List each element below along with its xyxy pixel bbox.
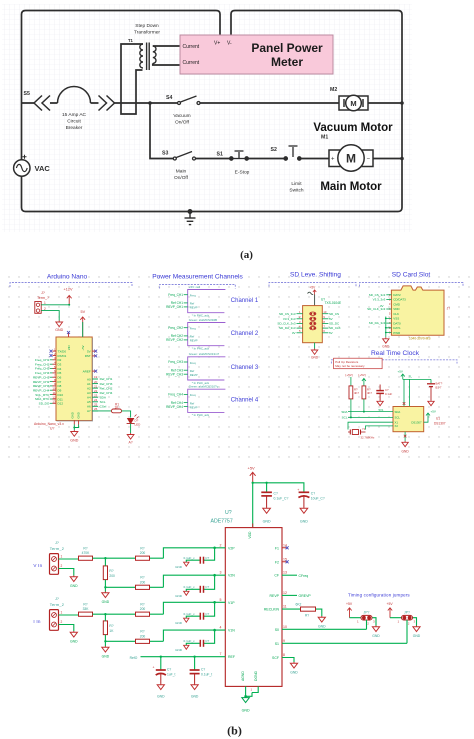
svg-text:SD_DC: SD_DC bbox=[329, 322, 340, 326]
svg-text:REVP: REVP bbox=[190, 306, 198, 310]
svg-text:DAT1: DAT1 bbox=[393, 326, 401, 330]
svg-text:GND: GND bbox=[102, 600, 110, 604]
svg-text:[+5V]: [+5V] bbox=[359, 373, 366, 377]
svg-text:REVP_CH1: REVP_CH1 bbox=[166, 305, 183, 309]
label 15 Amp AC Circuit Breaker bbox=[62, 112, 87, 131]
svg-text:+12V: +12V bbox=[64, 288, 73, 292]
svg-text:+5V: +5V bbox=[431, 410, 436, 414]
svg-text:1: 1 bbox=[357, 620, 359, 624]
svg-text:+5V: +5V bbox=[346, 602, 353, 606]
motor M2 vacuum motor bbox=[339, 95, 368, 111]
pin 3 sd card slot bbox=[389, 302, 401, 306]
svg-text:GND: GND bbox=[300, 520, 308, 524]
svg-text:A6: A6 bbox=[87, 405, 91, 409]
ground symbol (AGND) bbox=[242, 696, 250, 702]
svg-text:REF: REF bbox=[228, 655, 235, 659]
svg-text:33K: 33K bbox=[83, 607, 90, 611]
circuit breaker S5 (chevrons + arc) bbox=[34, 87, 115, 111]
svg-text:2: 2 bbox=[408, 622, 410, 626]
svg-text:+: + bbox=[153, 666, 155, 670]
resistor R? 4K7 (SCL pullup) bbox=[349, 386, 353, 399]
svg-text:7: 7 bbox=[220, 652, 222, 656]
svg-text:+5V: +5V bbox=[81, 345, 85, 350]
svg-text:A0: A0 bbox=[87, 377, 91, 381]
ground symbol (sd slot) bbox=[383, 337, 389, 343]
svg-text:6K2: 6K2 bbox=[296, 602, 302, 606]
svg-text:Ref_CH2: Ref_CH2 bbox=[100, 386, 113, 390]
svg-text:1K: 1K bbox=[109, 629, 114, 633]
svg-text:GND: GND bbox=[157, 695, 165, 699]
svg-text:GND: GND bbox=[175, 621, 183, 625]
wire: rtc vcc rail bbox=[403, 379, 431, 406]
svg-text:AGND: AGND bbox=[241, 671, 245, 681]
wire: J? pin1 to +12V bbox=[41, 304, 69, 306]
wire SCF to gnd bbox=[282, 658, 294, 663]
pin A3 bbox=[87, 389, 113, 395]
wire: divider tap bbox=[104, 558, 106, 591]
ground symbol (filter) bbox=[184, 645, 189, 649]
pin 3 D2 bbox=[35, 356, 62, 362]
svg-text:R?: R? bbox=[83, 603, 87, 607]
svg-text:SD_CLK_3v3: SD_CLK_3v3 bbox=[277, 322, 296, 326]
capacitor C? 0.1uF (rtc) bbox=[376, 385, 384, 401]
ground symbol (ref cap1) bbox=[157, 684, 164, 690]
power flag +5V (pullups left) bbox=[346, 373, 366, 377]
pin 9 sd card slot bbox=[389, 331, 401, 335]
svg-text:GND: GND bbox=[290, 671, 298, 675]
IC U? Arduino_Nano_v3.x bbox=[56, 337, 92, 421]
svg-text:A3: A3 bbox=[87, 391, 91, 395]
svg-text:* In PHC_ack: * In PHC_ack bbox=[192, 347, 210, 351]
svg-text:D6: D6 bbox=[58, 376, 62, 380]
capacitor C? 0.1uF_c (antialias filter) bbox=[186, 575, 214, 591]
svg-text:SD_CS_3v3: SD_CS_3v3 bbox=[369, 293, 386, 297]
svg-text:24: 24 bbox=[94, 398, 98, 402]
svg-text:JP?: JP? bbox=[404, 611, 410, 615]
pin 12 D11 bbox=[35, 395, 63, 401]
svg-text:SDA: SDA bbox=[395, 410, 401, 414]
svg-text:Arduino_Nano_v3.x: Arduino_Nano_v3.x bbox=[34, 422, 64, 426]
pin A7 bbox=[87, 407, 98, 413]
wire: J1 pin1 to R 470K bbox=[59, 558, 79, 560]
svg-text:J?: J? bbox=[55, 597, 59, 601]
svg-text:Circuit: Circuit bbox=[67, 119, 81, 125]
resistor R? 200 bbox=[136, 639, 150, 643]
ground symbol (ref cap2) bbox=[191, 684, 198, 690]
svg-text:D12: D12 bbox=[58, 402, 64, 406]
svg-text:+5V: +5V bbox=[248, 466, 256, 471]
svg-text:2: 2 bbox=[61, 564, 63, 568]
svg-text:0.1uF_t: 0.1uF_t bbox=[201, 673, 212, 677]
svg-text:Timing configuration jumpers: Timing configuration jumpers bbox=[348, 593, 410, 598]
label Vacuum On/Off bbox=[173, 113, 190, 126]
svg-text:Freq_CH4: Freq_CH4 bbox=[168, 393, 183, 397]
svg-text:Vacuum Motor: Vacuum Motor bbox=[313, 122, 393, 134]
pin A6 bbox=[87, 403, 107, 409]
svg-text:Panel Power: Panel Power bbox=[251, 41, 323, 55]
pin A1 bbox=[87, 380, 113, 386]
svg-text:Current: Current bbox=[183, 44, 200, 50]
svg-text:Freq_CH1: Freq_CH1 bbox=[35, 358, 50, 362]
svg-text:−: − bbox=[367, 157, 371, 163]
svg-text:Ref_CH4: Ref_CH4 bbox=[100, 391, 113, 395]
svg-text:REVP_CH2: REVP_CH2 bbox=[166, 338, 183, 342]
svg-text:REVP_CH3: REVP_CH3 bbox=[166, 372, 183, 376]
svg-text:V1P: V1P bbox=[228, 601, 235, 605]
ground symbol (reclkin) bbox=[318, 616, 325, 622]
svg-text:GND: GND bbox=[242, 709, 250, 713]
svg-text:12: 12 bbox=[283, 591, 287, 595]
svg-text:SCF: SCF bbox=[272, 656, 279, 660]
wire: channel 1 purple bracket bbox=[188, 290, 226, 313]
wire: rtc vcc pin right to +5V bbox=[424, 413, 430, 422]
svg-text:GND: GND bbox=[70, 640, 78, 644]
svg-text:V In: V In bbox=[33, 563, 42, 568]
svg-text:U?: U? bbox=[225, 510, 232, 516]
wire: channel 4 purple bracket bbox=[188, 389, 226, 412]
pin pair 3 level shifter bbox=[277, 320, 340, 326]
wire: AGND/DGND to ground bbox=[246, 686, 259, 696]
wire: sd slot ground bus bbox=[386, 317, 392, 338]
wire: to IC pin bbox=[163, 602, 225, 614]
ground symbol (battery) bbox=[428, 400, 434, 406]
wire: J? pin2 to GND bbox=[41, 311, 59, 321]
svg-text:C?: C? bbox=[205, 556, 209, 560]
wire: A7 to resistor R1 bbox=[92, 410, 111, 412]
svg-text:M1: M1 bbox=[321, 135, 328, 141]
svg-text:RECLKIN: RECLKIN bbox=[264, 608, 280, 612]
svg-text:5V: 5V bbox=[329, 331, 333, 335]
svg-text:22: 22 bbox=[94, 389, 98, 393]
svg-text:E-Stop: E-Stop bbox=[235, 170, 250, 176]
svg-text:R?: R? bbox=[140, 576, 144, 580]
svg-text:REVP_CH1: REVP_CH1 bbox=[33, 375, 50, 379]
svg-text:1: 1 bbox=[398, 620, 400, 624]
svg-text:R?: R? bbox=[109, 624, 113, 628]
label Step Down Transformer bbox=[134, 23, 160, 36]
svg-text:CSel: CSel bbox=[100, 405, 107, 409]
svg-text:S4: S4 bbox=[166, 95, 172, 101]
svg-text:SD_CS: SD_CS bbox=[329, 312, 339, 316]
svg-text:GND: GND bbox=[77, 412, 81, 418]
svg-text:RefO: RefO bbox=[130, 656, 138, 660]
wire CF to label bbox=[282, 574, 297, 576]
svg-text:A5: A5 bbox=[87, 400, 91, 404]
svg-text:Step Down: Step Down bbox=[135, 23, 159, 29]
svg-text:DS1307: DS1307 bbox=[411, 420, 422, 424]
ground symbol (cap2) bbox=[300, 507, 308, 513]
svg-text:GND: GND bbox=[55, 328, 63, 332]
svg-text:8: 8 bbox=[283, 653, 285, 657]
pin 6 D5 bbox=[35, 369, 62, 375]
wire: REF pin bbox=[141, 656, 226, 658]
ground symbol (rtc cap) bbox=[377, 400, 383, 406]
wire: rtc gnd bbox=[404, 432, 406, 441]
ground symbol of panel (a) bbox=[185, 210, 196, 225]
ground symbol (jumper) bbox=[413, 626, 420, 632]
svg-text:2: 2 bbox=[220, 543, 222, 547]
capacitor C? 0.1uF_C? (decoupling) bbox=[261, 492, 272, 507]
svg-text:V-: V- bbox=[227, 41, 232, 47]
svg-text:REVP: REVP bbox=[190, 405, 198, 409]
svg-text:VDD: VDD bbox=[393, 307, 400, 311]
battery BAT? bbox=[427, 384, 435, 400]
pin A5 bbox=[87, 398, 106, 404]
svg-text:SD_CS_3v3: SD_CS_3v3 bbox=[279, 312, 296, 316]
pin RST (no connect) bbox=[85, 354, 98, 358]
wire: +5V hook into level shifter bbox=[308, 292, 315, 305]
connector J? Term_2 bbox=[50, 597, 65, 630]
svg-text:CMD: CMD bbox=[393, 302, 401, 306]
wire: jumper common down bbox=[406, 620, 408, 643]
svg-text:* In PHC_ack: * In PHC_ack bbox=[192, 314, 210, 318]
svg-text:DAT2: DAT2 bbox=[393, 293, 401, 297]
svg-text:REVP_CH4: REVP_CH4 bbox=[166, 405, 183, 409]
ground symbol (LED) bbox=[127, 433, 134, 439]
svg-text:SCL: SCL bbox=[100, 400, 106, 404]
capacitor C? 1uF_t (ref) bbox=[160, 657, 162, 670]
resistor R1 bbox=[112, 409, 122, 413]
svg-text:SCL: SCL bbox=[395, 416, 401, 420]
svg-text:GND: GND bbox=[413, 634, 421, 638]
svg-text:DGND: DGND bbox=[254, 670, 258, 681]
pin 5 sd card slot bbox=[389, 312, 399, 316]
pin VIN (X no-connect) bbox=[68, 333, 70, 337]
svg-text:J?: J? bbox=[41, 291, 45, 295]
svg-text:+5V: +5V bbox=[398, 370, 403, 374]
svg-text:VAC: VAC bbox=[35, 164, 51, 173]
wire: LED to ground bbox=[130, 424, 132, 434]
svg-text:A4: A4 bbox=[87, 396, 91, 400]
svg-text:4K7: 4K7 bbox=[354, 391, 359, 395]
svg-text:AREF: AREF bbox=[83, 369, 91, 373]
pin 5V (no connect) bbox=[87, 349, 97, 353]
pin 8 D7 bbox=[33, 378, 62, 384]
svg-text:CF: CF bbox=[274, 574, 279, 578]
svg-text:3V: 3V bbox=[380, 304, 384, 308]
IC U1 DS1307 bbox=[393, 407, 424, 432]
svg-text:X2: X2 bbox=[395, 424, 399, 428]
svg-text:LED: LED bbox=[135, 423, 142, 427]
svg-text:Limit: Limit bbox=[291, 181, 302, 187]
wire: jumper common down bbox=[366, 620, 368, 629]
svg-text:GND: GND bbox=[175, 565, 183, 569]
svg-text:C?: C? bbox=[205, 612, 209, 616]
grid background of panel (a) bbox=[2, 4, 412, 232]
capacitor C? 0.1uF_c (antialias filter) bbox=[186, 602, 214, 618]
svg-text:0.1uF: 0.1uF bbox=[385, 392, 392, 396]
svg-text:Green: slotMCS313m?: Green: slotMCS313m? bbox=[189, 352, 220, 356]
wire: channel 3 purple bracket bbox=[188, 357, 226, 380]
svg-text:Ref_CH1: Ref_CH1 bbox=[100, 377, 113, 381]
svg-text:+5V: red: +5V: red bbox=[189, 285, 201, 289]
svg-text:9: 9 bbox=[283, 639, 285, 643]
svg-text:M2: M2 bbox=[330, 87, 337, 93]
ground symbol (shunt) bbox=[102, 646, 109, 652]
resistor R? 1K (shunt) bbox=[103, 621, 107, 635]
svg-text:+: + bbox=[331, 157, 335, 163]
ground symbol (jumper) bbox=[372, 626, 379, 632]
pin pair 5 level shifter bbox=[292, 329, 333, 335]
svg-text:B1-7: B1-7 bbox=[436, 386, 442, 390]
resistor R? 6K2 (RECLKIN) bbox=[282, 609, 322, 616]
svg-text:GND: GND bbox=[70, 584, 78, 588]
svg-text:* In PHC_ack: * In PHC_ack bbox=[192, 413, 210, 417]
svg-text:4: 4 bbox=[220, 626, 222, 630]
svg-text:R?: R? bbox=[140, 603, 144, 607]
pin AREF (no connect) bbox=[83, 369, 98, 373]
node: vacuum motor to right border bbox=[400, 101, 404, 105]
svg-text:R?: R? bbox=[140, 547, 144, 551]
svg-text:V2P: V2P bbox=[228, 546, 235, 550]
svg-text:S2: S2 bbox=[271, 147, 277, 153]
svg-text:OREVP: OREVP bbox=[299, 594, 312, 598]
ground symbol (cap1) bbox=[263, 507, 271, 513]
svg-text:RST: RST bbox=[85, 354, 91, 358]
svg-text:SD Leve. Shifting: SD Leve. Shifting bbox=[290, 272, 341, 279]
bracket SD card slot bbox=[360, 283, 464, 287]
switch S3 main on/off bbox=[173, 152, 195, 161]
svg-text:May not be necessary: May not be necessary bbox=[335, 364, 365, 368]
wire: bottom pins to GND bbox=[74, 425, 78, 431]
svg-text:DAT0: DAT0 bbox=[393, 321, 401, 325]
svg-text:25: 25 bbox=[94, 403, 98, 407]
svg-text:+: + bbox=[297, 488, 299, 492]
connector J? Term_2 bbox=[50, 541, 65, 574]
svg-text:T1: T1 bbox=[128, 38, 134, 43]
svg-text:2: 2 bbox=[61, 620, 63, 624]
svg-text:Breaker: Breaker bbox=[66, 125, 83, 131]
resistor R? 33K bbox=[79, 612, 93, 616]
pin 1 TX/D0 bbox=[50, 347, 67, 353]
pin 10 D9 bbox=[33, 387, 62, 393]
svg-text:M: M bbox=[350, 99, 356, 108]
svg-text:Transformer: Transformer bbox=[134, 30, 160, 36]
svg-text:Y1: Y1 bbox=[362, 427, 366, 431]
switch S1 E-Stop bbox=[230, 151, 249, 160]
svg-text:SD Card Slot: SD Card Slot bbox=[392, 272, 431, 279]
svg-text:REVP: REVP bbox=[269, 594, 279, 598]
svg-text:S0: S0 bbox=[275, 628, 279, 632]
wire: main hot line y=103 segments bbox=[22, 102, 403, 104]
capacitor C? 0.1uF_t (ref) bbox=[194, 657, 196, 670]
svg-text:3V: 3V bbox=[292, 331, 296, 335]
svg-text:Switch: Switch bbox=[289, 188, 303, 194]
svg-text:Channel 3: Channel 3 bbox=[231, 365, 259, 371]
svg-text:+5V: +5V bbox=[310, 286, 317, 290]
resistor R? 200 bbox=[136, 612, 150, 616]
svg-text:VSS: VSS bbox=[393, 317, 399, 321]
svg-text:F2: F2 bbox=[275, 560, 279, 564]
svg-text:0.1uF_c: 0.1uF_c bbox=[184, 639, 196, 643]
pin 7 D6 bbox=[33, 374, 62, 380]
svg-text:Freq: Freq bbox=[190, 327, 196, 331]
svg-text:R?: R? bbox=[109, 569, 113, 573]
svg-text:Freq_CH3: Freq_CH3 bbox=[35, 367, 50, 371]
svg-text:Term_2: Term_2 bbox=[50, 546, 64, 551]
bracket real time clock bbox=[331, 360, 457, 364]
wire: channel 2 purple bracket bbox=[188, 323, 226, 346]
svg-text:JP?: JP? bbox=[364, 611, 370, 615]
svg-text:SCL_RTC: SCL_RTC bbox=[35, 393, 50, 397]
svg-text:CD/DAT3: CD/DAT3 bbox=[393, 298, 406, 302]
transformer T1 (step-down) bbox=[140, 43, 156, 71]
wire: 5V into top pin bbox=[82, 322, 84, 337]
svg-text:V3.3_3v3: V3.3_3v3 bbox=[283, 317, 296, 321]
svg-text:Freq_CH2: Freq_CH2 bbox=[168, 326, 183, 330]
svg-text:SD_DA_3v3: SD_DA_3v3 bbox=[369, 321, 386, 325]
svg-text:C?: C? bbox=[167, 668, 171, 672]
ground symbol (filter) bbox=[184, 562, 189, 566]
wire: to IC pin bbox=[163, 630, 225, 641]
svg-text:Power Measurement Channels: Power Measurement Channels bbox=[152, 274, 243, 281]
power flag +12V bbox=[64, 288, 73, 305]
svg-text:DS1307: DS1307 bbox=[434, 422, 446, 426]
pin 4 sd card slot bbox=[367, 307, 400, 311]
svg-text:A2: A2 bbox=[87, 386, 91, 390]
svg-text:On/Off: On/Off bbox=[175, 120, 190, 126]
svg-text:C?: C? bbox=[205, 639, 209, 643]
power flag 5V bbox=[80, 310, 85, 337]
wire: secondary to meter current inputs bbox=[153, 46, 180, 65]
connector J? Term_? (power input) bbox=[35, 291, 49, 313]
pin 11 D10 bbox=[35, 391, 63, 397]
svg-text:PWR: PWR bbox=[393, 331, 401, 335]
svg-text:[+5V]: [+5V] bbox=[346, 373, 353, 377]
pin 8 sd card slot bbox=[389, 326, 401, 330]
svg-text:J?: J? bbox=[55, 541, 59, 545]
svg-text:GND: GND bbox=[71, 412, 75, 418]
svg-text:V3.3_3v3: V3.3_3v3 bbox=[373, 298, 386, 302]
svg-text:Main: Main bbox=[176, 169, 187, 175]
svg-text:C?: C? bbox=[311, 492, 315, 496]
svg-text:0.1uF_c: 0.1uF_c bbox=[184, 585, 196, 589]
wire: R1 to LED bbox=[122, 411, 131, 418]
svg-text:SDA: SDA bbox=[341, 410, 347, 414]
svg-text:3: 3 bbox=[373, 620, 375, 624]
wire: 33K to R200 to pin V1P bbox=[93, 613, 164, 615]
svg-text:GND: GND bbox=[263, 520, 271, 524]
wire REVP to label bbox=[282, 594, 297, 596]
wire: to IC pin bbox=[163, 575, 225, 587]
svg-text:R?: R? bbox=[140, 630, 144, 634]
svg-text:D8: D8 bbox=[58, 384, 62, 388]
svg-text:SD_DO: SD_DO bbox=[39, 402, 50, 406]
svg-text:Green: slotMCS394B: Green: slotMCS394B bbox=[189, 318, 217, 322]
svg-text:GND: GND bbox=[311, 356, 319, 360]
svg-text:Freq: Freq bbox=[190, 361, 196, 365]
svg-text:Freq_CH3: Freq_CH3 bbox=[168, 360, 183, 364]
svg-text:11: 11 bbox=[53, 391, 56, 395]
wire: S3 branch down and lower row bbox=[150, 103, 402, 159]
pin A0 bbox=[87, 375, 113, 381]
svg-text:REVP: REVP bbox=[190, 373, 198, 377]
pin 2 RX/D1 bbox=[50, 352, 67, 358]
node: junction hot line to S3 branch bbox=[148, 101, 152, 105]
svg-text:Freq: Freq bbox=[190, 393, 196, 397]
svg-text:U1: U1 bbox=[436, 417, 440, 421]
dotted grid of middle schematic bbox=[4, 268, 470, 464]
wire: +5V rail to decoupling caps bbox=[253, 483, 304, 528]
svg-text:V2N: V2N bbox=[228, 574, 235, 578]
svg-text:4K7: 4K7 bbox=[367, 391, 372, 395]
svg-text:D2: D2 bbox=[58, 358, 62, 362]
svg-text:5V: 5V bbox=[87, 349, 91, 353]
wire: level shifter gnd bbox=[314, 343, 316, 349]
svg-text:10: 10 bbox=[283, 625, 287, 629]
svg-text:ADE7757: ADE7757 bbox=[211, 519, 233, 525]
svg-text:GND: GND bbox=[102, 655, 110, 659]
